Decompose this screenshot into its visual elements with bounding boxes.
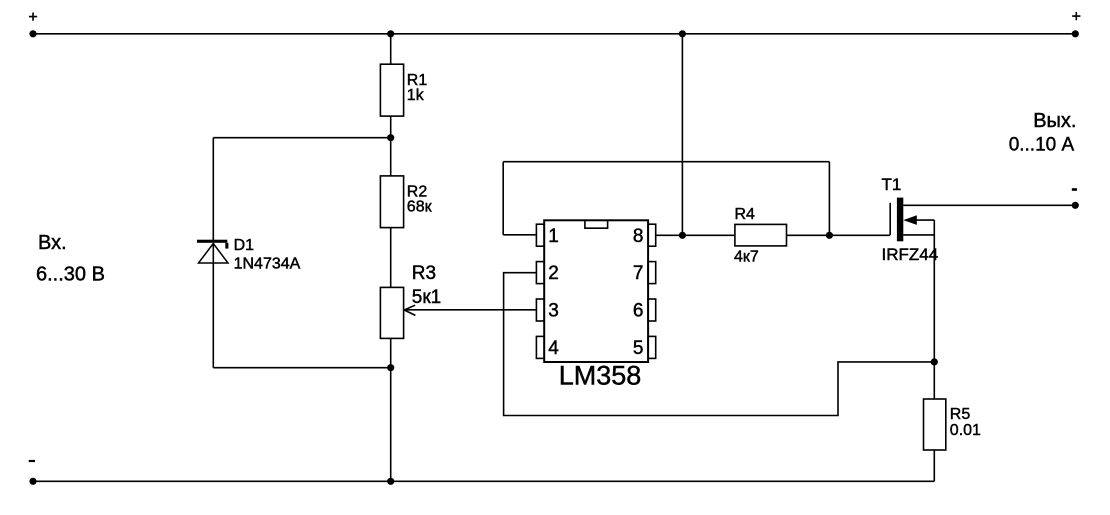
svg-text:8: 8 (633, 226, 644, 247)
svg-text:R3: R3 (412, 263, 436, 284)
svg-text:R4: R4 (735, 206, 756, 223)
svg-text:LM358: LM358 (559, 360, 642, 390)
svg-text:IRFZ44: IRFZ44 (882, 245, 939, 264)
svg-text:1N4734A: 1N4734A (234, 256, 301, 273)
svg-text:6: 6 (633, 301, 644, 322)
svg-text:Вых.: Вых. (1033, 110, 1076, 132)
svg-text:6...30 В: 6...30 В (36, 264, 105, 286)
svg-text:5к1: 5к1 (412, 287, 441, 308)
svg-text:2: 2 (548, 263, 559, 284)
svg-text:Вх.: Вх. (38, 232, 67, 254)
svg-text:7: 7 (633, 263, 644, 284)
svg-text:68к: 68к (407, 199, 433, 216)
svg-text:0...10 А: 0...10 А (1009, 135, 1075, 156)
svg-text:5: 5 (633, 338, 644, 359)
svg-text:4: 4 (548, 338, 559, 359)
svg-text:1k: 1k (407, 87, 425, 104)
svg-text:D1: D1 (234, 237, 255, 254)
svg-text:R5: R5 (950, 406, 971, 423)
svg-text:3: 3 (548, 301, 559, 322)
svg-text:0.01: 0.01 (950, 422, 981, 439)
svg-text:+: + (28, 9, 37, 26)
svg-text:+: + (1072, 9, 1081, 26)
svg-text:1: 1 (548, 226, 559, 247)
svg-text:T1: T1 (882, 175, 902, 194)
svg-text:4к7: 4к7 (734, 248, 759, 265)
